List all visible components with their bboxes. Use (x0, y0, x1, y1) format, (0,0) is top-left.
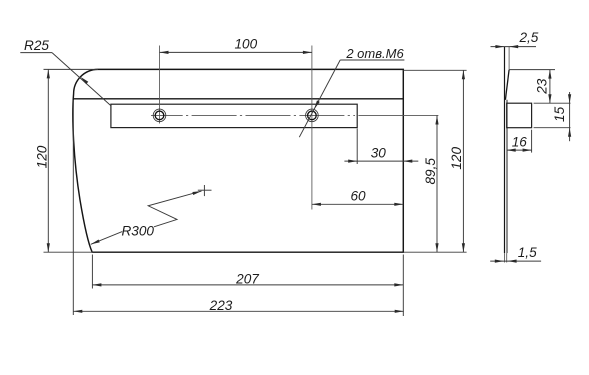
svg-text:207: 207 (235, 271, 259, 286)
holes centerline solid continuation / 89,5 extension (358, 114, 438, 116)
side view hem taper (505, 70, 509, 100)
holes centerline (151, 114, 355, 116)
svg-text:2,5: 2,5 (518, 30, 538, 45)
dimension 2,5 (491, 30, 539, 48)
svg-text:1,5: 1,5 (518, 245, 537, 260)
dimension 23 (509, 70, 570, 104)
svg-text:60: 60 (350, 188, 366, 203)
svg-text:2 отв.М6: 2 отв.М6 (345, 46, 404, 61)
dimension 30 (344, 129, 418, 165)
radius leader R25 (20, 38, 111, 105)
dimension 120 right (403, 70, 466, 252)
hole 2 M6 tapped (306, 109, 319, 122)
dimension 15 (534, 92, 572, 141)
svg-text:223: 223 (209, 298, 233, 313)
dimension 100 (hole spacing) (160, 37, 312, 54)
strip plate (111, 104, 357, 127)
bend line (74, 98, 404, 100)
plate outline (front view) (73, 69, 403, 252)
svg-text:89,5: 89,5 (423, 158, 438, 185)
hole 1 centerline vertical / extension (159, 46, 161, 124)
svg-text:120: 120 (35, 145, 50, 168)
dimension 120 left (35, 69, 99, 252)
svg-text:23: 23 (535, 78, 550, 95)
dimension 1,5 (490, 245, 541, 263)
svg-text:R300: R300 (121, 223, 154, 238)
dimension 89,5 (423, 116, 439, 253)
svg-text:30: 30 (371, 145, 387, 160)
side view sheet right edge (506, 100, 508, 253)
dimension 223 (73, 100, 403, 315)
radius leader R300 with zigzag to arc center mark (91, 191, 202, 244)
svg-text:120: 120 (449, 147, 464, 170)
svg-text:16: 16 (512, 134, 528, 149)
hole 1 M6 tapped (153, 109, 166, 122)
center mark cross R300 (198, 185, 212, 196)
hole 2 centerline vertical / extension (311, 46, 313, 210)
side view block (strip edge-on) (507, 103, 532, 128)
dimension 207 (92, 255, 403, 317)
leader 2 holes M6 (299, 46, 404, 137)
dimension 16 (507, 130, 532, 153)
svg-text:R25: R25 (24, 38, 49, 53)
dimension 60 (312, 188, 403, 206)
side view sheet left edge (504, 47, 506, 254)
side view hem right edge (508, 47, 510, 70)
svg-text:15: 15 (552, 106, 567, 122)
svg-text:100: 100 (234, 37, 257, 52)
